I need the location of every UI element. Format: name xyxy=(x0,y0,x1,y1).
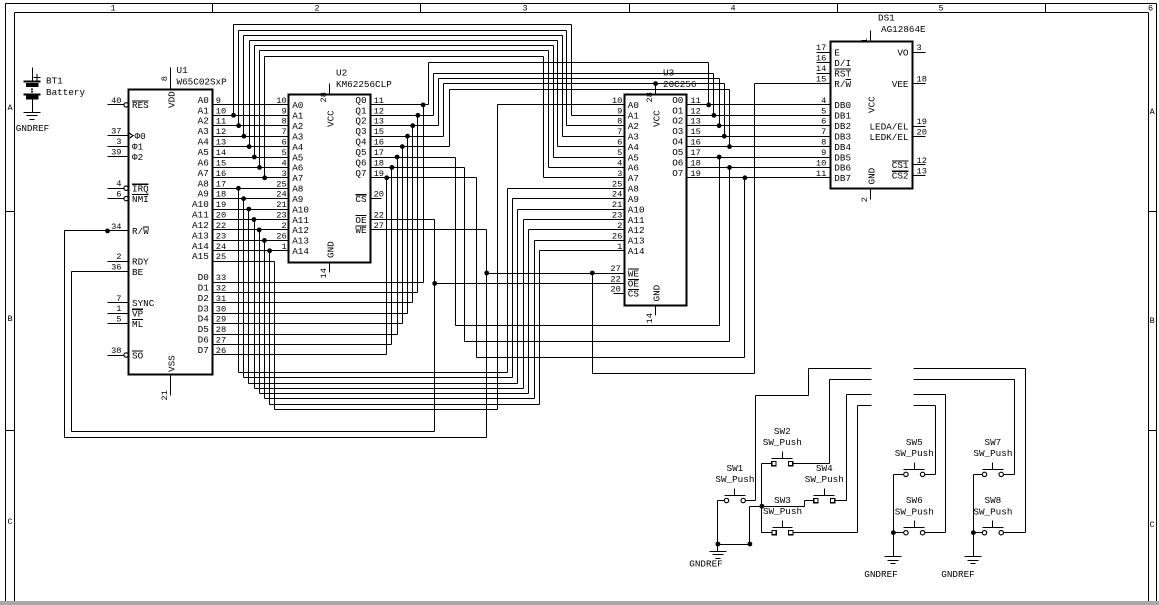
svg-text:Φ1: Φ1 xyxy=(132,141,144,152)
svg-text:VCC: VCC xyxy=(867,96,878,113)
svg-text:3: 3 xyxy=(917,43,922,53)
svg-text:25: 25 xyxy=(276,179,286,189)
svg-text:3: 3 xyxy=(116,137,121,147)
svg-text:A2: A2 xyxy=(292,121,303,132)
svg-text:7: 7 xyxy=(821,127,826,137)
svg-text:21: 21 xyxy=(612,200,622,210)
svg-text:14: 14 xyxy=(216,148,226,158)
svg-text:Φ0: Φ0 xyxy=(135,131,146,142)
svg-text:26: 26 xyxy=(612,231,622,241)
svg-text:O7: O7 xyxy=(672,168,683,179)
svg-text:18: 18 xyxy=(917,75,927,85)
svg-text:12: 12 xyxy=(690,106,700,116)
svg-text:A11: A11 xyxy=(628,215,645,226)
svg-text:SW_Push: SW_Push xyxy=(715,474,754,485)
svg-text:SYNC: SYNC xyxy=(132,298,155,309)
svg-text:Φ2: Φ2 xyxy=(132,152,143,163)
svg-text:IRQ: IRQ xyxy=(132,184,149,195)
svg-text:Q4: Q4 xyxy=(355,137,367,148)
svg-text:VCC: VCC xyxy=(652,110,663,127)
svg-text:RST: RST xyxy=(834,68,851,79)
svg-text:A3: A3 xyxy=(628,132,639,143)
svg-text:25: 25 xyxy=(216,252,226,262)
svg-text:A12: A12 xyxy=(292,225,309,236)
svg-text:BE: BE xyxy=(132,267,144,278)
svg-text:A0: A0 xyxy=(198,95,209,106)
svg-text:A9: A9 xyxy=(628,194,639,205)
svg-text:33: 33 xyxy=(216,273,226,283)
svg-text:Q6: Q6 xyxy=(355,157,366,168)
svg-text:KM62256CLP: KM62256CLP xyxy=(336,79,392,90)
svg-text:30: 30 xyxy=(216,304,226,314)
svg-text:R/: R/ xyxy=(834,79,846,90)
svg-text:C: C xyxy=(1150,520,1155,530)
svg-text:A4: A4 xyxy=(198,137,210,148)
svg-text:A11: A11 xyxy=(292,215,309,226)
svg-text:17: 17 xyxy=(374,148,384,158)
svg-text:VEE: VEE xyxy=(892,79,909,90)
svg-text:CS1: CS1 xyxy=(892,160,909,171)
svg-text:D5: D5 xyxy=(198,324,209,335)
svg-text:DB5: DB5 xyxy=(834,152,851,163)
svg-text:DB3: DB3 xyxy=(834,132,851,143)
svg-text:B: B xyxy=(1150,316,1155,326)
svg-text:12: 12 xyxy=(374,106,384,116)
svg-text:VCC: VCC xyxy=(326,110,337,127)
svg-text:GNDREF: GNDREF xyxy=(689,559,722,570)
svg-text:A14: A14 xyxy=(192,241,209,252)
svg-text:28: 28 xyxy=(216,325,226,335)
svg-text:GND: GND xyxy=(652,284,663,301)
svg-text:VSS: VSS xyxy=(167,355,178,372)
svg-text:14: 14 xyxy=(645,313,655,323)
svg-text:22: 22 xyxy=(610,274,620,284)
svg-text:21: 21 xyxy=(160,390,170,400)
svg-text:A15: A15 xyxy=(192,251,209,262)
svg-text:19: 19 xyxy=(216,200,226,210)
svg-text:25: 25 xyxy=(612,179,622,189)
svg-text:RDY: RDY xyxy=(132,256,149,267)
svg-text:W65C02SxP: W65C02SxP xyxy=(177,76,228,87)
svg-text:A10: A10 xyxy=(292,204,309,215)
svg-text:O1: O1 xyxy=(672,105,684,116)
svg-text:GND: GND xyxy=(326,241,337,258)
svg-text:19: 19 xyxy=(917,117,927,127)
svg-text:A: A xyxy=(1150,107,1156,117)
svg-text:SW_Push: SW_Push xyxy=(763,437,802,448)
svg-text:A8: A8 xyxy=(198,178,209,189)
svg-text:12: 12 xyxy=(917,156,927,166)
svg-text:A8: A8 xyxy=(292,184,303,195)
svg-text:12: 12 xyxy=(216,127,226,137)
svg-text:5: 5 xyxy=(821,106,826,116)
svg-text:18: 18 xyxy=(690,158,700,168)
svg-text:10: 10 xyxy=(216,106,226,116)
svg-text:A7: A7 xyxy=(292,173,303,184)
svg-text:U1: U1 xyxy=(177,65,189,76)
svg-text:6: 6 xyxy=(116,190,121,200)
svg-text:Q0: Q0 xyxy=(355,95,366,106)
svg-text:A11: A11 xyxy=(192,210,209,221)
svg-text:40: 40 xyxy=(111,96,121,106)
svg-text:17: 17 xyxy=(690,148,700,158)
svg-text:16: 16 xyxy=(816,54,826,64)
svg-text:GNDREF: GNDREF xyxy=(941,569,974,580)
svg-text:GNDREF: GNDREF xyxy=(16,123,49,134)
svg-text:20: 20 xyxy=(917,128,927,138)
svg-text:A10: A10 xyxy=(628,204,645,215)
svg-text:14: 14 xyxy=(319,268,329,278)
svg-text:DB4: DB4 xyxy=(834,142,851,153)
svg-text:A1: A1 xyxy=(198,105,210,116)
svg-text:18: 18 xyxy=(374,158,384,168)
svg-text:20: 20 xyxy=(610,284,620,294)
svg-text:DB0: DB0 xyxy=(834,100,851,111)
svg-text:15: 15 xyxy=(374,127,384,137)
svg-text:W: W xyxy=(143,226,149,237)
svg-text:9: 9 xyxy=(281,106,286,116)
svg-text:A2: A2 xyxy=(628,121,639,132)
svg-text:DB2: DB2 xyxy=(834,121,851,132)
svg-text:3: 3 xyxy=(522,3,527,13)
svg-text:O4: O4 xyxy=(672,137,684,148)
svg-text:A4: A4 xyxy=(628,142,640,153)
svg-text:E: E xyxy=(834,48,840,59)
svg-text:GND: GND xyxy=(867,167,878,184)
svg-text:17: 17 xyxy=(816,43,826,53)
svg-text:37: 37 xyxy=(111,127,121,137)
svg-text:8: 8 xyxy=(160,76,170,81)
svg-text:WE: WE xyxy=(355,225,367,236)
svg-text:SO: SO xyxy=(132,350,144,361)
svg-text:A13: A13 xyxy=(292,236,309,247)
svg-text:Q2: Q2 xyxy=(355,116,366,127)
svg-text:SW_Push: SW_Push xyxy=(763,506,802,517)
svg-text:A1: A1 xyxy=(628,111,640,122)
svg-text:A12: A12 xyxy=(628,225,645,236)
svg-text:A4: A4 xyxy=(292,142,304,153)
svg-text:13: 13 xyxy=(917,166,927,176)
svg-text:38: 38 xyxy=(111,346,121,356)
svg-text:1: 1 xyxy=(110,3,115,13)
svg-text:15: 15 xyxy=(216,158,226,168)
svg-text:D1: D1 xyxy=(198,282,210,293)
svg-text:A3: A3 xyxy=(292,132,303,143)
svg-text:A3: A3 xyxy=(198,126,209,137)
svg-text:C: C xyxy=(7,517,12,527)
svg-text:SW8: SW8 xyxy=(985,495,1002,506)
svg-text:O0: O0 xyxy=(672,95,683,106)
svg-text:A8: A8 xyxy=(628,184,639,195)
svg-text:VO: VO xyxy=(897,48,909,59)
svg-text:5: 5 xyxy=(281,148,286,158)
svg-text:14: 14 xyxy=(816,64,826,74)
svg-text:DB6: DB6 xyxy=(834,163,851,174)
svg-text:2: 2 xyxy=(860,197,870,202)
svg-text:R/: R/ xyxy=(132,226,144,237)
svg-text:4: 4 xyxy=(730,3,735,13)
svg-text:7: 7 xyxy=(281,127,286,137)
svg-text:DB7: DB7 xyxy=(834,173,851,184)
svg-text:1: 1 xyxy=(860,38,870,43)
svg-text:SW4: SW4 xyxy=(816,463,833,474)
svg-text:D0: D0 xyxy=(198,272,209,283)
svg-text:O5: O5 xyxy=(672,147,683,158)
svg-text:A9: A9 xyxy=(198,189,209,200)
svg-text:B: B xyxy=(7,314,12,324)
svg-text:A2: A2 xyxy=(198,116,209,127)
svg-text:D/I: D/I xyxy=(834,58,851,69)
svg-text:LEDK/EL: LEDK/EL xyxy=(869,132,908,143)
svg-text:D4: D4 xyxy=(198,314,210,325)
svg-text:SW1: SW1 xyxy=(727,463,744,474)
svg-text:A13: A13 xyxy=(192,230,209,241)
svg-text:A12: A12 xyxy=(192,220,209,231)
svg-text:6: 6 xyxy=(1148,3,1153,13)
svg-text:SW_Push: SW_Push xyxy=(973,506,1012,517)
svg-text:U2: U2 xyxy=(336,68,347,79)
svg-text:A6: A6 xyxy=(292,163,303,174)
svg-text:9: 9 xyxy=(617,106,622,116)
svg-text:VP: VP xyxy=(132,309,144,320)
svg-text:17: 17 xyxy=(216,179,226,189)
svg-text:26: 26 xyxy=(276,231,286,241)
svg-text:CS2: CS2 xyxy=(892,171,909,182)
svg-text:15: 15 xyxy=(690,127,700,137)
svg-text:4: 4 xyxy=(116,179,121,189)
svg-text:CS: CS xyxy=(628,289,640,300)
svg-text:D3: D3 xyxy=(198,303,209,314)
svg-text:SW_Push: SW_Push xyxy=(805,474,844,485)
svg-text:DS1: DS1 xyxy=(878,13,895,24)
svg-text:RES: RES xyxy=(132,100,149,111)
svg-text:BT1: BT1 xyxy=(46,76,63,87)
svg-text:9: 9 xyxy=(821,148,826,158)
svg-text:A0: A0 xyxy=(292,100,303,111)
svg-text:A9: A9 xyxy=(292,194,303,205)
svg-text:Q3: Q3 xyxy=(355,126,366,137)
svg-text:A7: A7 xyxy=(628,173,639,184)
svg-text:SW_Push: SW_Push xyxy=(895,506,934,517)
svg-text:A: A xyxy=(7,103,13,113)
svg-text:WE: WE xyxy=(628,268,640,279)
svg-text:28: 28 xyxy=(319,92,329,102)
svg-text:GNDREF: GNDREF xyxy=(864,569,897,580)
svg-text:2: 2 xyxy=(314,3,319,13)
svg-text:A5: A5 xyxy=(198,147,209,158)
svg-text:4: 4 xyxy=(617,158,622,168)
svg-text:A7: A7 xyxy=(198,168,209,179)
svg-text:DB1: DB1 xyxy=(834,111,851,122)
svg-text:5: 5 xyxy=(116,315,121,325)
svg-text:AG12864E: AG12864E xyxy=(881,24,926,35)
svg-text:A14: A14 xyxy=(292,246,309,257)
svg-text:VDD: VDD xyxy=(167,91,178,108)
svg-text:4: 4 xyxy=(281,158,286,168)
svg-text:D2: D2 xyxy=(198,293,209,304)
svg-text:D6: D6 xyxy=(198,335,209,346)
svg-text:D7: D7 xyxy=(198,345,209,356)
svg-text:SW_Push: SW_Push xyxy=(895,448,934,459)
svg-text:SW_Push: SW_Push xyxy=(973,448,1012,459)
svg-text:5: 5 xyxy=(938,3,943,13)
svg-text:2: 2 xyxy=(116,252,121,262)
svg-text:SW6: SW6 xyxy=(906,495,923,506)
svg-text:21: 21 xyxy=(276,200,286,210)
svg-text:O6: O6 xyxy=(672,157,683,168)
svg-text:OE: OE xyxy=(355,215,367,226)
svg-text:28: 28 xyxy=(645,92,655,102)
svg-text:27: 27 xyxy=(610,264,620,274)
svg-text:A10: A10 xyxy=(192,199,209,210)
svg-text:Q7: Q7 xyxy=(355,168,366,179)
svg-text:20C256: 20C256 xyxy=(663,79,696,90)
svg-text:O2: O2 xyxy=(672,116,683,127)
svg-text:1: 1 xyxy=(116,304,121,314)
svg-text:A1: A1 xyxy=(292,111,304,122)
svg-text:A5: A5 xyxy=(628,152,639,163)
svg-text:NMI: NMI xyxy=(132,194,149,205)
svg-text:7: 7 xyxy=(617,127,622,137)
svg-text:LEDA/EL: LEDA/EL xyxy=(869,122,908,133)
svg-text:32: 32 xyxy=(216,283,226,293)
svg-text:5: 5 xyxy=(617,148,622,158)
svg-text:A13: A13 xyxy=(628,236,645,247)
svg-text:CS: CS xyxy=(355,194,367,205)
svg-text:SW2: SW2 xyxy=(774,426,791,437)
svg-text:ML: ML xyxy=(132,319,143,330)
svg-text:39: 39 xyxy=(111,148,121,158)
svg-text:W: W xyxy=(846,79,852,90)
svg-text:SW3: SW3 xyxy=(774,495,791,506)
svg-text:O3: O3 xyxy=(672,126,683,137)
svg-text:Q5: Q5 xyxy=(355,147,366,158)
svg-text:A14: A14 xyxy=(628,246,645,257)
svg-text:A6: A6 xyxy=(198,157,209,168)
svg-text:A6: A6 xyxy=(628,163,639,174)
svg-text:SW5: SW5 xyxy=(906,437,923,448)
svg-text:A5: A5 xyxy=(292,152,303,163)
svg-text:Battery: Battery xyxy=(46,87,85,98)
svg-text:23: 23 xyxy=(216,231,226,241)
svg-text:Q1: Q1 xyxy=(355,105,367,116)
svg-text:SW7: SW7 xyxy=(985,437,1002,448)
svg-text:10: 10 xyxy=(816,158,826,168)
svg-text:A0: A0 xyxy=(628,100,639,111)
svg-text:7: 7 xyxy=(116,294,121,304)
